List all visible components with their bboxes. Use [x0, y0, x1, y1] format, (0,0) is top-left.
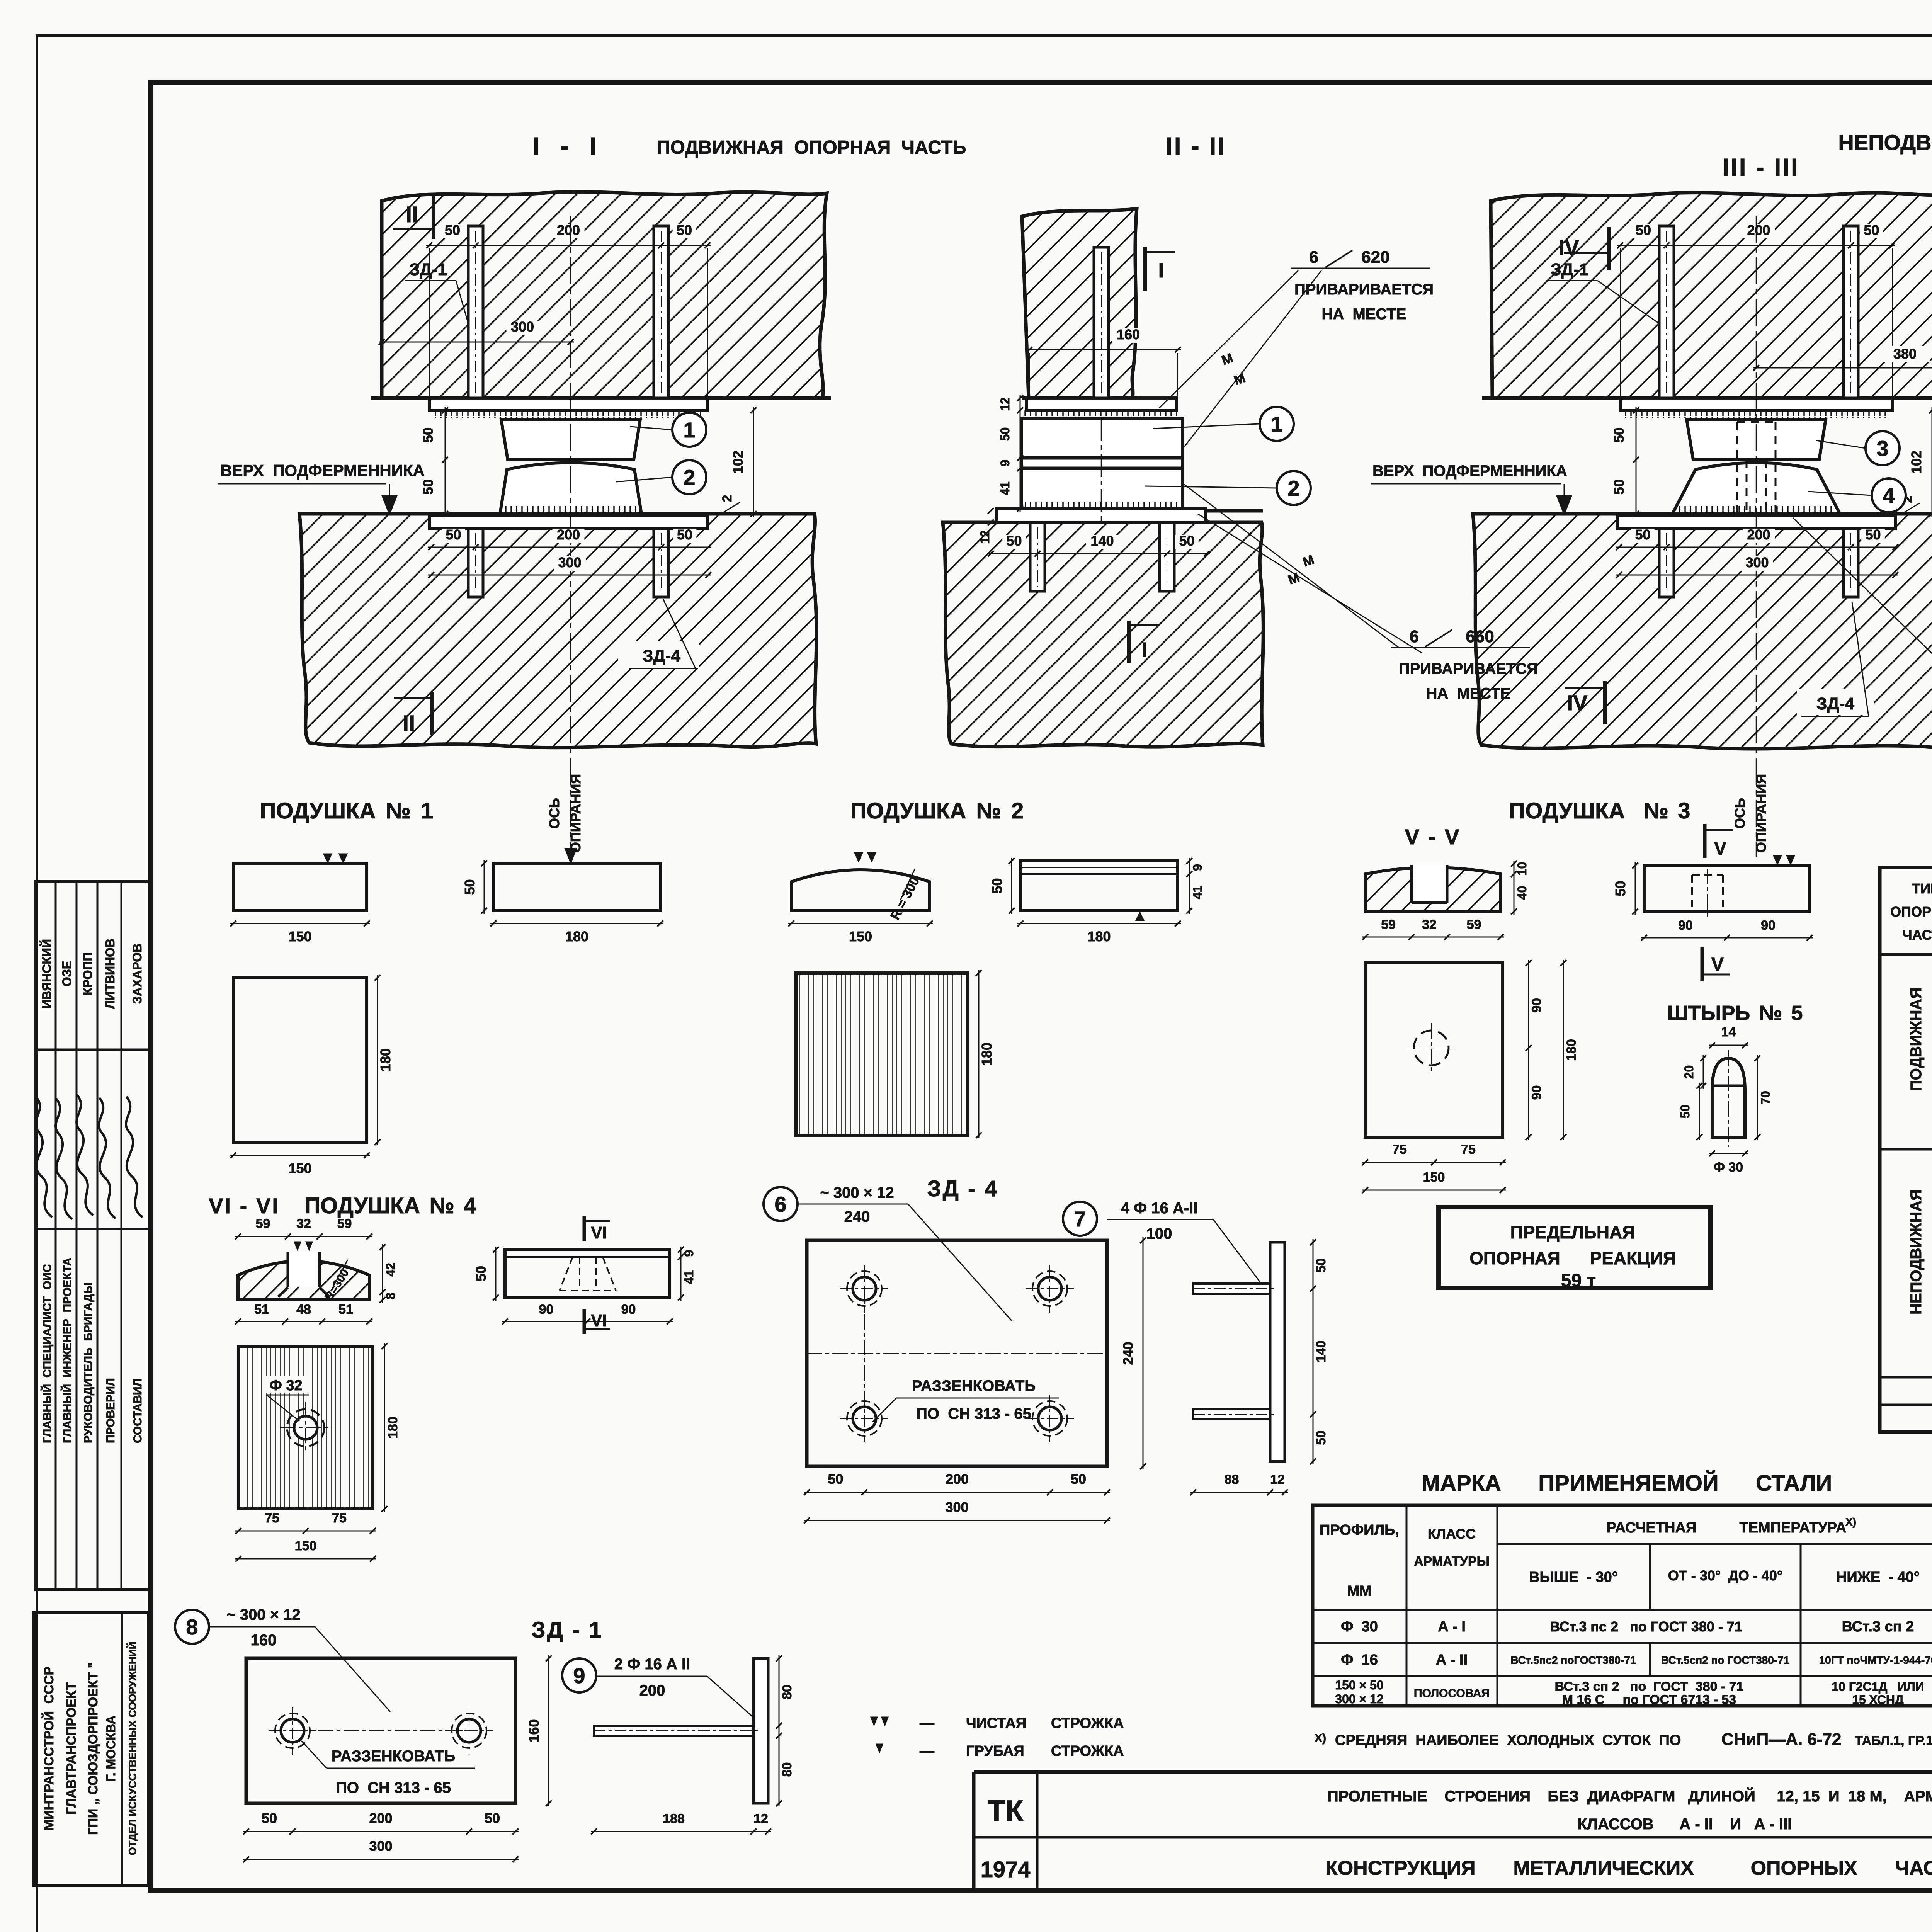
- callout circle 6 with size note: [764, 1187, 798, 1221]
- svg-text:ГЛАВНЫЙ СПЕЦИАЛИСТ ОИС: ГЛАВНЫЙ СПЕЦИАЛИСТ ОИС: [41, 1264, 54, 1443]
- svg-text:300 × 12: 300 × 12: [1335, 1692, 1383, 1706]
- svg-text:ОЗЕ: ОЗЕ: [60, 961, 74, 986]
- svg-text:150 × 50: 150 × 50: [1335, 1678, 1383, 1692]
- svg-text:ГРУБАЯ: ГРУБАЯ: [966, 1743, 1024, 1759]
- pad 4 section view (hatched, curved top): [238, 1261, 369, 1300]
- svg-text:7: 7: [1074, 1207, 1086, 1231]
- svg-text:90: 90: [1761, 918, 1776, 933]
- svg-text:50: 50: [1006, 533, 1022, 549]
- svg-text:2: 2: [683, 465, 695, 490]
- svg-text:ПОДУШКА № 2: ПОДУШКА № 2: [850, 798, 1024, 823]
- svg-text:90: 90: [1678, 918, 1693, 933]
- ZD-4 anchors dims 50/140/50 right: [1313, 1239, 1314, 1464]
- svg-text:50: 50: [445, 222, 460, 238]
- svg-text:88: 88: [1225, 1472, 1239, 1487]
- svg-text:ОПОРНОЙ: ОПОРНОЙ: [1890, 903, 1932, 920]
- section III-III: vertical dim 102 right: [1932, 407, 1932, 517]
- svg-text:42: 42: [384, 1263, 398, 1277]
- svg-text:59 т: 59 т: [1561, 1270, 1596, 1291]
- svg-text:ОПИРАНИЯ: ОПИРАНИЯ: [568, 774, 583, 853]
- svg-text:200: 200: [1747, 222, 1770, 238]
- svg-text:КЛАСС: КЛАСС: [1428, 1526, 1476, 1542]
- section I-I: vertical dim 102 right: [753, 407, 754, 517]
- svg-text:ПРОФИЛЬ,: ПРОФИЛЬ,: [1320, 1522, 1399, 1538]
- section II-II: central anchor bolt: [1094, 247, 1109, 398]
- ZD-1 dim 160 right: [548, 1655, 549, 1806]
- svg-text:Ф 30: Ф 30: [1341, 1619, 1378, 1635]
- pad 4 side view VI: [505, 1250, 670, 1298]
- svg-text:V: V: [1714, 838, 1726, 859]
- svg-text:12: 12: [998, 397, 1012, 411]
- svg-text:150: 150: [288, 1160, 311, 1176]
- pad 4 side dims 50 left, 9/41 right, 90-90 below: [495, 1247, 497, 1301]
- section III-III: callout circle 3: [1866, 431, 1900, 465]
- legend: surface finish marks: [871, 1717, 888, 1725]
- plate ZD-4 plan: [807, 1240, 1107, 1466]
- svg-text:50: 50: [473, 1266, 489, 1281]
- svg-text:59: 59: [256, 1216, 270, 1231]
- svg-text:Х): Х): [1315, 1732, 1326, 1745]
- svg-text:V - V: V - V: [1405, 825, 1461, 849]
- svg-text:50: 50: [989, 878, 1005, 893]
- svg-text:102: 102: [1908, 451, 1924, 474]
- svg-text:9: 9: [573, 1663, 585, 1688]
- svg-text:СНиП—А. 6-72: СНиП—А. 6-72: [1721, 1730, 1842, 1749]
- svg-text:51: 51: [254, 1302, 269, 1317]
- section I-I: lower dim 300: [428, 575, 711, 576]
- callout circle 7 with anchor note: [1063, 1202, 1097, 1236]
- svg-text:ВЕРХ ПОДФЕРМЕННИКА: ВЕРХ ПОДФЕРМЕННИКА: [220, 461, 425, 480]
- pad 3 section dims 59-32-59: [1362, 937, 1504, 938]
- svg-text:V: V: [1711, 954, 1724, 975]
- svg-text:200: 200: [946, 1471, 969, 1487]
- svg-text:90: 90: [539, 1302, 554, 1317]
- svg-text:4 Ф 16 А-II: 4 Ф 16 А-II: [1121, 1200, 1198, 1217]
- svg-text:—: —: [920, 1715, 934, 1731]
- svg-text:50: 50: [1864, 222, 1879, 238]
- section III-III: pin shtyr no.5 hidden (dashed): [1737, 422, 1776, 514]
- left margin stamp: approval table: [36, 882, 151, 1590]
- svg-text:14: 14: [1721, 1025, 1736, 1039]
- section I-I: embedded plate ZD-1 (top): [429, 398, 707, 410]
- pad 3 plan dims 90/90 and 180 right: [1528, 960, 1529, 1140]
- svg-text:90: 90: [1529, 998, 1544, 1013]
- section I-I: vertical dim 50/50 left of pads: [445, 407, 446, 517]
- pad 4 section dims 51-48-51 below: [235, 1321, 372, 1322]
- svg-text:51: 51: [338, 1302, 353, 1317]
- svg-text:41: 41: [1190, 886, 1204, 900]
- section III-III: lower dim 50-200-50: [1616, 547, 1898, 548]
- svg-text:ВЕРХ ПОДФЕРМЕННИКА: ВЕРХ ПОДФЕРМЕННИКА: [1372, 463, 1567, 480]
- svg-text:СТРОЖКА: СТРОЖКА: [1051, 1743, 1124, 1759]
- svg-text:ТАБЛ.1, ГР.19.: ТАБЛ.1, ГР.19.: [1855, 1733, 1932, 1748]
- svg-text:200: 200: [639, 1682, 665, 1699]
- svg-text:ВСт.3 пс 2 по ГОСТ 380 - 71: ВСт.3 пс 2 по ГОСТ 380 - 71: [1550, 1619, 1742, 1634]
- pad 2 side dim 50: [1011, 858, 1012, 914]
- pad 1 front view: [233, 863, 367, 911]
- svg-text:ЧАСТИ: ЧАСТИ: [1902, 927, 1932, 943]
- section II-II: vertical dim chain 12/50/9/41 left: [1020, 395, 1021, 512]
- section mark V (bottom): [1701, 947, 1704, 981]
- svg-text:380: 380: [1893, 346, 1917, 362]
- svg-text:40: 40: [1515, 886, 1529, 900]
- svg-text:12: 12: [978, 530, 992, 544]
- svg-text:50: 50: [1071, 1471, 1086, 1487]
- section II-II: upper beam concrete block (hatched): [1022, 209, 1137, 398]
- svg-text:9: 9: [1190, 864, 1204, 871]
- svg-text:300: 300: [369, 1838, 392, 1854]
- svg-text:ЗД-1: ЗД-1: [1551, 260, 1588, 279]
- svg-text:50: 50: [420, 479, 436, 495]
- ZD-1 anchor side view (T-shape): [753, 1658, 768, 1803]
- section I-I: upper dim 50-200-50: [426, 245, 711, 246]
- svg-text:6: 6: [1309, 248, 1318, 267]
- svg-text:М 16 С по ГОСТ 6713 - 53: М 16 С по ГОСТ 6713 - 53: [1562, 1692, 1736, 1707]
- section III-III: embedded plate ZD-4 (bottom): [1617, 515, 1895, 529]
- section I-I: lower dim 50-200-50: [428, 547, 711, 548]
- svg-text:ММ: ММ: [1347, 1583, 1371, 1599]
- ZD-1 anchor dims 80/80 right: [779, 1655, 780, 1806]
- svg-text:А - I: А - I: [1438, 1619, 1466, 1635]
- svg-text:IV: IV: [1559, 235, 1579, 260]
- svg-text:ПОДВИЖНАЯ ОПОРНАЯ ЧАСТЬ: ПОДВИЖНАЯ ОПОРНАЯ ЧАСТЬ: [657, 137, 966, 158]
- svg-text:Г. МОСКВА: Г. МОСКВА: [104, 1716, 118, 1782]
- svg-text:II: II: [406, 202, 418, 227]
- section III-III: leader label ZD-4: [1797, 689, 1874, 715]
- pad 4 section dims 59-32-59 above: [235, 1236, 372, 1237]
- plate ZD-1 plan: [246, 1658, 515, 1803]
- svg-text:ЗД - 4: ЗД - 4: [927, 1176, 998, 1201]
- svg-text:41: 41: [998, 481, 1012, 495]
- svg-text:59: 59: [1381, 917, 1396, 932]
- svg-text:СТРОЖКА: СТРОЖКА: [1051, 1715, 1124, 1731]
- svg-text:II: II: [403, 711, 415, 736]
- section I-I: embedded plate ZD-4 (bottom): [429, 515, 707, 529]
- pad 1 side dim 50: [484, 860, 485, 914]
- svg-text:ПОДУШКА № 4: ПОДУШКА № 4: [304, 1193, 476, 1218]
- svg-text:РАСЧЕТНАЯ ТЕМПЕРАТУРА: РАСЧЕТНАЯ ТЕМПЕРАТУРА: [1607, 1520, 1847, 1536]
- svg-text:ВСт.5пс2 поГОСТ380-71: ВСт.5пс2 поГОСТ380-71: [1511, 1654, 1636, 1666]
- svg-text:240: 240: [844, 1208, 870, 1225]
- section III-III: embedded plate ZD-1 (top): [1620, 398, 1892, 410]
- section II-II: lower plate ZD-4 side: [996, 509, 1206, 522]
- ZD-4 dims 50-200-50 / 300 below: [804, 1492, 1110, 1493]
- svg-text:НИЖЕ - 40°: НИЖЕ - 40°: [1836, 1569, 1920, 1585]
- specification table headers: [1890, 878, 1932, 950]
- pad 3 side dim 50: [1635, 862, 1636, 915]
- svg-text:50: 50: [1611, 427, 1627, 443]
- svg-text:32: 32: [296, 1216, 311, 1231]
- svg-text:III - III: III - III: [1722, 153, 1799, 181]
- section I-I: bearing pad no.1: [501, 419, 640, 460]
- section I-I: upper dim 300 (half): [379, 342, 574, 343]
- svg-text:VI: VI: [591, 1223, 607, 1242]
- svg-text:160: 160: [1117, 327, 1140, 342]
- svg-text:ОСЬ: ОСЬ: [1732, 798, 1748, 829]
- svg-text:50: 50: [677, 222, 692, 238]
- svg-text:ОПИРАНИЯ: ОПИРАНИЯ: [1753, 774, 1769, 853]
- section III-III: centre axis line: [1756, 216, 1757, 857]
- limit reaction box: [1439, 1207, 1710, 1288]
- pad 4 plan view (ruled surface, hole F32): [238, 1346, 373, 1509]
- section I-I: anchor bolts of ZD-4 into support: [468, 529, 483, 597]
- section III-III: vertical dim 50/50 left of pads: [1636, 407, 1637, 517]
- svg-text:75: 75: [332, 1511, 347, 1526]
- svg-text:Х): Х): [1845, 1516, 1856, 1528]
- svg-text:180: 180: [565, 929, 588, 944]
- section mark V (top): [1703, 824, 1707, 858]
- svg-text:ЧИСТАЯ: ЧИСТАЯ: [966, 1715, 1026, 1731]
- svg-text:РАЗЗЕНКОВАТЬ: РАЗЗЕНКОВАТЬ: [332, 1748, 455, 1765]
- svg-text:ЛИТВИНОВ: ЛИТВИНОВ: [103, 939, 117, 1009]
- section I-I: centre axis line: [570, 216, 571, 857]
- section II-II: lower anchor bolts: [1030, 522, 1045, 591]
- pad 2 side dim 180: [1017, 923, 1181, 924]
- svg-text:ЗД-4: ЗД-4: [643, 646, 681, 665]
- svg-text:100: 100: [1146, 1225, 1172, 1242]
- svg-text:180: 180: [1564, 1039, 1579, 1061]
- svg-text:ТК: ТК: [988, 1794, 1024, 1827]
- left margin stamp: role titles: [41, 1258, 144, 1443]
- svg-text:80: 80: [780, 1762, 794, 1777]
- section III-III: lower support concrete block (hatched): [1473, 514, 1932, 749]
- svg-text:VI: VI: [591, 1311, 607, 1330]
- svg-text:IV: IV: [1567, 690, 1588, 715]
- svg-text:ЗД - 1: ЗД - 1: [531, 1617, 603, 1643]
- pad 4 plan dims 75-75 and 150: [235, 1531, 376, 1532]
- svg-text:ТИП: ТИП: [1912, 881, 1932, 896]
- pad 2 plan dim 180: [978, 970, 980, 1138]
- svg-text:50: 50: [1179, 533, 1194, 549]
- svg-text:8: 8: [186, 1615, 198, 1639]
- ZD-4 anchors dims 88/12 below: [1190, 1492, 1288, 1493]
- svg-text:Ф 30: Ф 30: [1714, 1160, 1743, 1175]
- svg-text:СОСТАВИЛ: СОСТАВИЛ: [131, 1378, 144, 1443]
- svg-text:160: 160: [251, 1632, 277, 1649]
- pad 3 side dims 90-90: [1641, 937, 1813, 939]
- svg-text:50: 50: [1314, 1430, 1328, 1445]
- svg-text:180: 180: [979, 1043, 995, 1066]
- svg-text:75: 75: [1392, 1142, 1407, 1157]
- pad 1 front dim 150: [230, 923, 370, 924]
- specification table grid: [1880, 867, 1932, 1432]
- svg-text:I: I: [1141, 638, 1147, 662]
- svg-text:ВСт.3 сп 2: ВСт.3 сп 2: [1842, 1619, 1914, 1635]
- section I-I: callout circle 2: [672, 460, 706, 494]
- svg-text:80: 80: [780, 1685, 794, 1699]
- svg-text:1: 1: [1270, 412, 1282, 436]
- svg-text:50: 50: [1635, 527, 1650, 543]
- section III-III: anchor bolts into support: [1659, 529, 1674, 597]
- svg-text:ОСЬ: ОСЬ: [546, 798, 562, 829]
- section II-II: lower support concrete block (hatched): [943, 522, 1263, 747]
- svg-text:ПОДВИЖНАЯ: ПОДВИЖНАЯ: [1908, 988, 1925, 1091]
- svg-text:2: 2: [1287, 476, 1299, 500]
- pad 2 side dims 9 and 41: [1189, 858, 1190, 914]
- svg-text:ВСт.3 сп 2 по ГОСТ 380 - 7: ВСт.3 сп 2 по ГОСТ 380 - 71: [1554, 1679, 1743, 1694]
- svg-text:ПОЛОСОВАЯ: ПОЛОСОВАЯ: [1414, 1687, 1490, 1700]
- svg-text:ВСт.5сп2 по ГОСТ380-71: ВСт.5сп2 по ГОСТ380-71: [1661, 1654, 1790, 1666]
- svg-text:ИВЯНСКИЙ: ИВЯНСКИЙ: [40, 939, 54, 1009]
- svg-text:ГПИ „ СОЮЗДОРПРОЕКТ ": ГПИ „ СОЮЗДОРПРОЕКТ ": [86, 1662, 100, 1835]
- svg-text:РАЗЗЕНКОВАТЬ: РАЗЗЕНКОВАТЬ: [912, 1378, 1036, 1395]
- pad 2 side view: [1020, 861, 1178, 911]
- svg-text:ПРОВЕРИЛ: ПРОВЕРИЛ: [104, 1378, 117, 1443]
- svg-text:300: 300: [558, 554, 581, 570]
- svg-text:15 ХСНД: 15 ХСНД: [1852, 1693, 1904, 1707]
- svg-text:200: 200: [557, 222, 580, 238]
- section I-I: bearing pad no.2 (rocker with R=300 top): [500, 463, 641, 514]
- pad 3 plan dims 75-75 and 150: [1362, 1162, 1506, 1163]
- section III-III: anchor bolts into beam: [1659, 226, 1674, 398]
- svg-text:10: 10: [1515, 862, 1529, 876]
- section II-II: upper plate ZD-1 side: [1026, 398, 1176, 410]
- pad 3 side view with hidden slot: [1644, 866, 1810, 912]
- svg-text:КОНСТРУКЦИЯ МЕТАЛЛИЧЕСКИХ: КОНСТРУКЦИЯ МЕТАЛЛИЧЕСКИХ ОПОРНЫХ ЧАСТЕЙ: [1325, 1857, 1932, 1879]
- svg-text:—: —: [920, 1743, 934, 1759]
- pad 2 plan view (machined surface ruling): [796, 973, 968, 1135]
- svg-text:НЕПОДВИЖНАЯ: НЕПОДВИЖНАЯ: [1908, 1189, 1925, 1315]
- svg-text:12: 12: [1270, 1472, 1285, 1487]
- ZD-4 anchors side view (T-shape): [1270, 1242, 1285, 1461]
- pad 3 plan view: [1365, 963, 1503, 1137]
- svg-text:200: 200: [557, 527, 580, 543]
- svg-text:НЕПОДВИЖНАЯ ОПОРНАЯ ЧАСТЬ: НЕПОДВИЖНАЯ ОПОРНАЯ ЧАСТЬ: [1838, 130, 1932, 155]
- section II-II: dim 160: [1026, 349, 1181, 350]
- pad 1 plan dim 180: [377, 975, 378, 1145]
- svg-text:50: 50: [1865, 527, 1881, 543]
- svg-text:ПОДУШКА № 1: ПОДУШКА № 1: [260, 798, 434, 823]
- svg-text:6: 6: [774, 1192, 786, 1216]
- pad 3 section dims 10/40 right: [1514, 861, 1515, 915]
- left margin stamp: organization block: [34, 1612, 148, 1886]
- svg-text:90: 90: [1529, 1085, 1544, 1100]
- ZD-1 dims 50-200-50 / 300 below: [243, 1831, 519, 1832]
- svg-text:160: 160: [526, 1719, 542, 1742]
- svg-text:59: 59: [337, 1216, 352, 1231]
- section III-III: upper dim 50-200-50: [1617, 245, 1895, 246]
- title block frame lines: [974, 1770, 1932, 1774]
- svg-text:200: 200: [369, 1810, 392, 1826]
- left margin stamp: signatures: [36, 1095, 143, 1219]
- svg-text:КРОПП: КРОПП: [81, 952, 95, 995]
- svg-text:II - II: II - II: [1166, 132, 1226, 160]
- pad 2 front dim 150: [788, 923, 933, 924]
- svg-text:1974: 1974: [980, 1857, 1030, 1882]
- svg-text:50: 50: [446, 527, 461, 543]
- svg-text:ЗАХАРОВ: ЗАХАРОВ: [130, 944, 144, 1004]
- svg-text:180: 180: [378, 1048, 393, 1071]
- svg-text:32: 32: [1422, 917, 1437, 932]
- svg-text:КЛАССОВ А - II И А -: КЛАССОВ А - II И А - III: [1578, 1816, 1792, 1833]
- svg-text:ВЫШЕ - 30°: ВЫШЕ - 30°: [1529, 1569, 1618, 1585]
- svg-text:ГЛАВТРАНСПРОЕКТ: ГЛАВТРАНСПРОЕКТ: [64, 1682, 79, 1815]
- svg-text:ПОДУШКА № 3: ПОДУШКА № 3: [1509, 798, 1690, 823]
- svg-text:50: 50: [1611, 479, 1627, 495]
- svg-text:48: 48: [296, 1302, 311, 1317]
- svg-text:ОТДЕЛ ИСКУССТВЕННЫХ СООРУЖЕНИЙ: ОТДЕЛ ИСКУССТВЕННЫХ СООРУЖЕНИЙ: [126, 1642, 138, 1855]
- section I-I: leader label ZD-4: [618, 641, 699, 668]
- pin no.5 drawing (bullet shape): [1712, 1058, 1745, 1137]
- svg-text:А - II: А - II: [1436, 1652, 1468, 1668]
- section II-II: section mark I (bottom): [1127, 621, 1131, 663]
- svg-text:50: 50: [1678, 1105, 1692, 1119]
- section II-II: bearing pads side view stack: [1022, 418, 1183, 509]
- svg-text:I: I: [1158, 259, 1164, 282]
- svg-text:ПО СН 313 - 65: ПО СН 313 - 65: [916, 1405, 1031, 1422]
- svg-text:1: 1: [683, 418, 695, 442]
- pad 2 front view (curved top R=300): [791, 870, 930, 911]
- svg-text:90: 90: [621, 1302, 636, 1317]
- svg-text:140: 140: [1090, 533, 1114, 549]
- svg-text:200: 200: [1747, 527, 1770, 543]
- svg-text:620: 620: [1361, 248, 1389, 267]
- svg-text:ПО СН 313 - 65: ПО СН 313 - 65: [336, 1779, 451, 1796]
- svg-text:20: 20: [1682, 1065, 1696, 1079]
- svg-text:6: 6: [1410, 627, 1419, 646]
- svg-text:150: 150: [288, 929, 311, 944]
- pin dims 14 / 20 / 50 / 70 / F30: [1709, 1045, 1748, 1046]
- ZD-4 dim 240 right: [1143, 1237, 1144, 1469]
- section marks VI above and below: [583, 1216, 586, 1241]
- callout circle 9 with anchor note: [562, 1658, 596, 1692]
- svg-text:50: 50: [262, 1810, 277, 1826]
- svg-text:ОПОРНАЯ РЕАКЦИЯ: ОПОРНАЯ РЕАКЦИЯ: [1469, 1248, 1676, 1268]
- svg-text:180: 180: [1087, 929, 1111, 944]
- section III-III: upper beam concrete block (hatched): [1491, 193, 1932, 398]
- section III-III: callout circle 4: [1872, 478, 1906, 512]
- steel grade table grid: [1313, 1505, 1932, 1706]
- svg-text:50: 50: [828, 1471, 843, 1487]
- svg-text:50: 50: [420, 427, 436, 443]
- svg-text:2: 2: [720, 495, 735, 502]
- pad 4 plan dim 180 right: [384, 1343, 385, 1512]
- section II-II: section mark I (top): [1143, 247, 1147, 291]
- svg-text:50: 50: [998, 427, 1012, 441]
- pad 1 side dim 180: [490, 923, 663, 924]
- svg-text:50: 50: [462, 879, 478, 895]
- svg-text:~ 300 × 12: ~ 300 × 12: [226, 1606, 300, 1623]
- svg-text:50: 50: [677, 527, 692, 543]
- section III-III: dim 380: [1753, 367, 1932, 369]
- svg-text:Ф 16: Ф 16: [1341, 1652, 1378, 1668]
- svg-text:50: 50: [1612, 881, 1628, 896]
- section II-II: callout circle 2: [1277, 471, 1311, 505]
- svg-text:9: 9: [682, 1250, 696, 1257]
- pad 1 plan view: [233, 978, 367, 1142]
- section II-II: lower dim 50-140-50: [988, 553, 1210, 554]
- callout circle 8 with size note: [175, 1610, 209, 1644]
- pad 1 plan dim 150: [230, 1155, 370, 1156]
- svg-text:300: 300: [511, 319, 534, 335]
- section I-I: upper beam concrete block (hatched): [382, 192, 827, 398]
- ZD-1 anchor dims 188/12 below: [591, 1831, 771, 1832]
- svg-text:ЗД-1: ЗД-1: [409, 260, 447, 279]
- svg-text:50: 50: [485, 1810, 500, 1826]
- svg-text:4: 4: [1883, 483, 1895, 508]
- svg-text:2 Ф 16 А II: 2 Ф 16 А II: [614, 1656, 690, 1673]
- svg-text:~ 300 × 12: ~ 300 × 12: [820, 1184, 894, 1201]
- svg-text:МАРКА ПРИМЕНЯЕМОЙ СТАЛИ: МАРКА ПРИМЕНЯЕМОЙ СТАЛИ: [1422, 1471, 1832, 1496]
- section III-III: bearing pad no.3: [1687, 419, 1826, 460]
- section III-III: bearing pad no.4 (rocker, wide base): [1672, 463, 1840, 514]
- svg-text:41: 41: [682, 1270, 696, 1284]
- svg-text:150: 150: [295, 1539, 317, 1553]
- svg-text:I - I: I - I: [533, 132, 599, 160]
- svg-text:50: 50: [1636, 222, 1651, 238]
- svg-text:75: 75: [1461, 1142, 1476, 1157]
- pad 1 side view: [493, 863, 660, 911]
